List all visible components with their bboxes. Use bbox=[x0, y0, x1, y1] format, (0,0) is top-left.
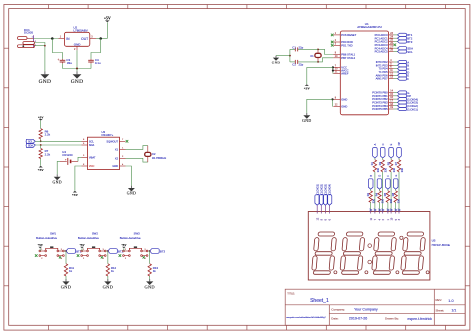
decimal point digit 4 bbox=[426, 271, 429, 274]
svg-text:22p: 22p bbox=[299, 62, 304, 66]
capacitor C2 22p bbox=[290, 60, 318, 66]
wire R12 to GND bbox=[107, 276, 109, 279]
wire +5V to SW1 bbox=[39, 248, 41, 251]
svg-text:330: 330 bbox=[397, 198, 401, 203]
U1 pin 16 PCINT2 PB2 bbox=[372, 97, 418, 101]
wire battery negative to GND bbox=[57, 161, 60, 174]
net tag segment A bbox=[373, 143, 378, 158]
svg-text:GND: GND bbox=[61, 285, 71, 290]
ground under R11 bbox=[65, 279, 67, 281]
U1 pin 5 INT1 PD3 bbox=[376, 63, 409, 67]
ground under R12 bbox=[107, 279, 109, 281]
svg-text:+5V: +5V bbox=[38, 115, 44, 119]
junction R6-SCL bbox=[40, 140, 42, 142]
U1 pin 18 PCINT4 PB4 bbox=[372, 104, 418, 108]
+3V flag under MCU bbox=[305, 84, 309, 86]
wire jack pin1 to regulator IN bbox=[34, 38, 59, 40]
net tag BT1 bbox=[66, 249, 76, 254]
svg-text:GND: GND bbox=[341, 105, 347, 109]
svg-text:GND: GND bbox=[71, 79, 84, 85]
U1 pin 24 PC1 ADC1 bbox=[375, 36, 413, 40]
svg-text:X1: X1 bbox=[310, 54, 314, 58]
net port SCL bbox=[26, 139, 35, 143]
resistor R3 330 segment C bbox=[378, 158, 388, 172]
wire segment C to display bbox=[382, 172, 384, 210]
net tag segment F bbox=[386, 175, 391, 190]
resistor R7 2.2k bbox=[40, 145, 42, 148]
button SW1 Button-Autodrive bbox=[36, 232, 64, 261]
wire X2 to crystal bbox=[126, 158, 148, 162]
decimal point digit 3 bbox=[396, 271, 399, 274]
wire to resistor R11 bbox=[65, 251, 67, 264]
wire left branch to C3 bbox=[52, 39, 62, 59]
wire +5V to R6 bbox=[40, 121, 42, 129]
wire R13 to GND bbox=[149, 276, 151, 279]
ground under R13 bbox=[149, 279, 151, 281]
wire SW1 to net tag and resistor bbox=[64, 250, 66, 252]
svg-text:+: + bbox=[57, 58, 59, 62]
U1 pin 9 PB6 XTAL1 bbox=[333, 53, 355, 57]
svg-text:Sheet_1: Sheet_1 bbox=[310, 298, 329, 304]
ground under U3 bbox=[130, 186, 132, 188]
display left digit pins with tags bbox=[315, 184, 320, 221]
+3V flag under R7 bbox=[39, 166, 43, 168]
svg-text:+5V: +5V bbox=[38, 243, 44, 247]
+5V flag SW2 bbox=[80, 247, 84, 249]
net port SDA bbox=[26, 144, 35, 148]
ground under DC jack bbox=[44, 71, 46, 74]
wire VCC to +3V flag bbox=[75, 166, 82, 191]
svg-text:GND: GND bbox=[39, 79, 52, 85]
resistor R7 330 segment DP bbox=[394, 158, 404, 172]
no-connect X on SQWOUT bbox=[126, 140, 129, 143]
svg-text:32.768KHz: 32.768KHz bbox=[152, 156, 167, 160]
svg-text:VCC: VCC bbox=[89, 164, 95, 168]
svg-text:R5: R5 bbox=[386, 161, 390, 165]
svg-text:330: 330 bbox=[400, 167, 404, 172]
svg-text:CR1220: CR1220 bbox=[62, 153, 73, 157]
wire XTAL1 to crystal rail bbox=[318, 49, 333, 54]
svg-text:R4: R4 bbox=[375, 192, 379, 196]
svg-text:G: G bbox=[395, 175, 398, 177]
resistor R6 330 segment F bbox=[383, 189, 393, 203]
no-connect X SW2 pin4 bbox=[101, 256, 103, 258]
wire right branch to C4 bbox=[91, 39, 101, 59]
resistor R1 330 segment A bbox=[370, 158, 380, 172]
U1 pin 25 PC2 ADC2 bbox=[375, 40, 413, 44]
U1 pin 8 GND bbox=[333, 97, 347, 101]
U1 pin 15 PCINT1 PB1 bbox=[372, 94, 411, 98]
svg-text:espen.t.fredrick: espen.t.fredrick bbox=[407, 317, 432, 321]
crystal X1 bbox=[310, 49, 321, 62]
crystal X2 32.768KHz bbox=[145, 146, 167, 163]
junction jack pin3 bbox=[44, 45, 46, 47]
resistor R5 330 segment E bbox=[386, 158, 396, 172]
ground crystal caps bbox=[275, 56, 277, 58]
decimal point digit 2 bbox=[365, 271, 368, 274]
svg-text:GND: GND bbox=[112, 164, 118, 168]
svg-text:GND: GND bbox=[127, 192, 136, 196]
seven segment digit 2 bbox=[340, 232, 366, 274]
U1 pin 2 PD0 RXD bbox=[331, 40, 353, 44]
display right segment pins bbox=[370, 209, 373, 221]
wire +5V to SW2 bbox=[81, 248, 83, 251]
svg-text:F: F bbox=[407, 77, 409, 81]
svg-text:R7: R7 bbox=[394, 161, 398, 165]
wire MCU GND pins to ground bbox=[307, 98, 334, 113]
no-connect X SW2 pin2 bbox=[77, 254, 80, 257]
svg-text:PC6 RESET: PC6 RESET bbox=[341, 33, 356, 37]
ground under MCU bbox=[306, 113, 308, 115]
svg-text:Drawn By:: Drawn By: bbox=[385, 317, 399, 321]
svg-text:(1:DIG4): (1:DIG4) bbox=[328, 184, 332, 195]
wire regulator OUT to +5V bbox=[96, 38, 107, 40]
svg-text:X1: X1 bbox=[115, 148, 119, 152]
U1 pin 21 AREF bbox=[333, 72, 349, 76]
svg-text:Company:: Company: bbox=[331, 308, 345, 312]
svg-text:+3V: +3V bbox=[304, 86, 311, 90]
U1 pin 10 PB7 XTAL2 bbox=[333, 56, 355, 60]
wire SDA to U3 bbox=[35, 144, 81, 146]
svg-text:T0 PD4: T0 PD4 bbox=[378, 67, 388, 71]
svg-text:+5V: +5V bbox=[79, 243, 85, 247]
U1 pin 28 PC5 ADC5 bbox=[375, 50, 413, 54]
svg-text:DP: DP bbox=[398, 142, 401, 146]
wire segment F to display pin bbox=[387, 202, 389, 209]
title block bbox=[285, 289, 465, 325]
U1 pin 20 AVCC bbox=[333, 69, 348, 73]
no-connect X SW1 pin2 bbox=[35, 254, 38, 257]
wire to resistor R12 bbox=[107, 251, 109, 264]
voltage regulator U2 L7805ABV bbox=[59, 25, 97, 51]
wire segment E to display bbox=[390, 172, 392, 210]
U1 pin 26 PC3 ADC3 bbox=[375, 43, 397, 47]
svg-text:GND: GND bbox=[103, 285, 113, 290]
svg-text:330: 330 bbox=[372, 198, 376, 203]
title block texts bbox=[286, 291, 456, 321]
U1 pin 22 GND bbox=[333, 105, 347, 109]
wire X1 to crystal bbox=[126, 146, 148, 150]
svg-text:BT3: BT3 bbox=[407, 40, 413, 44]
U1 pin 11 T1 PD5 bbox=[378, 70, 409, 74]
svg-text:R6: R6 bbox=[383, 192, 387, 196]
svg-text:AREF: AREF bbox=[341, 72, 349, 76]
connector DC1 DC005 barrel jack bbox=[18, 28, 38, 48]
svg-text:REV:: REV: bbox=[436, 298, 443, 302]
battery U4 CR1220 bbox=[60, 150, 78, 165]
svg-text:R8: R8 bbox=[391, 192, 395, 196]
svg-text:33u: 33u bbox=[67, 61, 72, 65]
RTC U3 DS1307+ bbox=[82, 130, 126, 170]
junction crystal bottom bbox=[317, 61, 319, 63]
svg-text:GND: GND bbox=[302, 119, 311, 123]
svg-text:SCL: SCL bbox=[28, 140, 33, 143]
+3V flag under U3 VCC bbox=[73, 191, 77, 193]
wire SW2 to net tag and resistor bbox=[106, 250, 108, 252]
+5V flag SW1 bbox=[38, 247, 42, 249]
U1 pin 4 INT0 PD2 bbox=[376, 60, 409, 64]
resistor R2 330 segment B bbox=[366, 189, 376, 203]
svg-text:PB7 XTAL2: PB7 XTAL2 bbox=[341, 56, 355, 60]
svg-text:BT3: BT3 bbox=[160, 249, 166, 253]
wire R7 to +3V bbox=[40, 159, 42, 166]
frame row ticks bbox=[4, 48, 470, 286]
wire R6 to SCL line bbox=[40, 139, 42, 142]
svg-text:HDSP-B03E: HDSP-B03E bbox=[432, 243, 451, 247]
wire C4 to ground rail bbox=[90, 64, 92, 69]
U1 pin 14 PCINT0 PB0 bbox=[372, 91, 409, 95]
U1 pin 1 PC6 RESET bbox=[331, 33, 357, 37]
svg-text:Button-Autodrive: Button-Autodrive bbox=[120, 236, 141, 240]
svg-text:Button-Autodrive: Button-Autodrive bbox=[78, 236, 99, 240]
svg-text:+5V: +5V bbox=[104, 17, 111, 21]
wire R11 to GND bbox=[65, 276, 67, 279]
svg-text:VBAT: VBAT bbox=[89, 155, 96, 159]
svg-text:1k: 1k bbox=[111, 269, 115, 273]
U1 pin 6 T0 PD4 bbox=[378, 67, 409, 71]
colon upper dot bbox=[368, 244, 372, 248]
svg-text:PD1 TXD: PD1 TXD bbox=[341, 43, 352, 47]
svg-text:PC3 ADC3: PC3 ADC3 bbox=[375, 43, 388, 47]
net tag segment E bbox=[389, 143, 394, 158]
resistor R4 330 segment D bbox=[375, 189, 385, 203]
svg-text:330: 330 bbox=[384, 167, 388, 172]
wire U3 GND to ground bbox=[126, 166, 132, 186]
svg-text:330: 330 bbox=[376, 167, 380, 172]
svg-text:GND: GND bbox=[144, 285, 154, 290]
+5V flag SW3 bbox=[122, 247, 126, 249]
svg-text:OUT: OUT bbox=[81, 37, 88, 41]
junction crystal top bbox=[317, 49, 319, 51]
svg-text:easyeda.com/editor#id=a1b2c3d4: easyeda.com/editor#id=a1b2c3d4e5f6g7 bbox=[286, 316, 326, 319]
U1 pin 13 AIN1 PD7 bbox=[376, 77, 410, 81]
U1 pin 3 PD1 TXD bbox=[331, 43, 353, 47]
resistor R6 2.2k bbox=[39, 129, 42, 139]
svg-text:+3V: +3V bbox=[72, 193, 79, 197]
+5V flag above R6 bbox=[39, 119, 43, 121]
svg-text:22p: 22p bbox=[299, 46, 304, 50]
svg-text:DS1307+: DS1307+ bbox=[102, 133, 114, 137]
U1 pin 27 PC4 ADC4 bbox=[375, 46, 413, 50]
seven segment digit 1 bbox=[311, 232, 337, 274]
svg-text:C2: C2 bbox=[292, 62, 296, 66]
junction R7-SDA bbox=[40, 144, 42, 146]
svg-text:R1: R1 bbox=[370, 161, 374, 165]
svg-text:330: 330 bbox=[392, 167, 396, 172]
svg-text:SQWOUT: SQWOUT bbox=[106, 139, 118, 143]
U1 pin 23 PC0 ADC0 bbox=[375, 33, 413, 37]
wire C3 to ground rail bbox=[62, 64, 64, 69]
wire segment B to display pin bbox=[370, 202, 372, 209]
wire segment DP to display bbox=[398, 172, 400, 210]
svg-text:2.2k: 2.2k bbox=[45, 153, 51, 157]
wire to resistor R13 bbox=[149, 251, 151, 264]
wire +5V to SW3 bbox=[123, 248, 125, 251]
wire jack pin3 stub bbox=[35, 45, 45, 47]
net tag segment C bbox=[380, 143, 385, 158]
net tag segment D bbox=[377, 175, 382, 190]
net tag BT3 bbox=[150, 249, 160, 254]
svg-text:PC5 ADC5: PC5 ADC5 bbox=[375, 50, 388, 54]
svg-text:C1: C1 bbox=[292, 46, 296, 50]
junction at 52.3,38.5 bbox=[51, 37, 54, 40]
svg-text:+5V: +5V bbox=[121, 243, 127, 247]
svg-text:DC005: DC005 bbox=[24, 31, 33, 35]
U1 pin 17 PCINT3 PB3 bbox=[372, 101, 418, 105]
seven segment digit 4 bbox=[400, 232, 426, 274]
svg-text:PCINT5 PB5: PCINT5 PB5 bbox=[372, 107, 388, 111]
no-connect X SW3 pin2 bbox=[119, 254, 122, 257]
svg-text:GND: GND bbox=[74, 42, 82, 46]
MCU U1 ATMEGA328P-PU bbox=[340, 22, 388, 115]
svg-text:Your Company: Your Company bbox=[354, 308, 378, 312]
svg-text:(1:DIG1): (1:DIG1) bbox=[407, 107, 418, 111]
wire SCL to U3 bbox=[35, 140, 81, 142]
svg-text:SCL: SCL bbox=[407, 50, 413, 54]
colon lower dot bbox=[368, 260, 372, 264]
svg-text:X2: X2 bbox=[115, 156, 119, 160]
wire segment G to display pin bbox=[395, 202, 397, 209]
svg-text:Sheet:: Sheet: bbox=[436, 308, 445, 312]
+5V flag power supply bbox=[105, 20, 110, 22]
no-connect X SW3 pin4 bbox=[143, 256, 145, 258]
ground rail under regulator bbox=[63, 68, 92, 70]
resistor R11 1k bbox=[64, 264, 67, 276]
net tag segment B bbox=[368, 175, 373, 190]
svg-text:GND: GND bbox=[341, 97, 347, 101]
wire SW3 to net tag and resistor bbox=[148, 250, 150, 252]
svg-text:GND: GND bbox=[53, 180, 62, 184]
svg-text:SCL: SCL bbox=[89, 139, 95, 143]
decimal point digit 1 bbox=[334, 271, 337, 274]
net tag segment G bbox=[393, 175, 398, 190]
svg-text:1.0: 1.0 bbox=[448, 299, 453, 303]
svg-text:D: D bbox=[379, 175, 382, 177]
svg-text:330: 330 bbox=[380, 198, 384, 203]
ground under regulator bbox=[76, 71, 78, 74]
button SW2 Button-Autodrive bbox=[78, 232, 106, 261]
svg-text:0.1u: 0.1u bbox=[95, 61, 101, 65]
wire caps to ground bbox=[276, 49, 291, 62]
ground under battery bbox=[56, 174, 58, 176]
svg-text:2.2k: 2.2k bbox=[45, 133, 51, 137]
no-connect X SW1 pin4 bbox=[59, 256, 61, 258]
capacitor C3 33u bbox=[57, 58, 72, 65]
svg-text:SDA: SDA bbox=[89, 143, 95, 147]
svg-text:AIN1 PD7: AIN1 PD7 bbox=[376, 77, 388, 81]
display U5 HDSP-B03E outline bbox=[308, 212, 450, 281]
wire VCC AVCC AREF bus to +3V bbox=[307, 66, 334, 84]
wire XTAL2 to crystal rail bbox=[318, 58, 333, 62]
resistor R13 1k bbox=[148, 264, 151, 276]
svg-text:C: C bbox=[382, 143, 385, 145]
net tag BT2 bbox=[108, 249, 118, 254]
svg-text:2019-07-26: 2019-07-26 bbox=[349, 317, 367, 321]
resistor R8 330 segment G bbox=[391, 189, 401, 203]
wire segment D to display pin bbox=[379, 202, 381, 209]
svg-text:+3V: +3V bbox=[38, 168, 45, 172]
svg-text:1/1: 1/1 bbox=[452, 308, 457, 312]
apostrophe indicator bbox=[400, 236, 403, 239]
net tag segment DP bbox=[397, 142, 402, 158]
svg-text:330: 330 bbox=[389, 198, 393, 203]
U1 pin 12 AIN0 PD6 bbox=[376, 73, 410, 77]
svg-text:SDA: SDA bbox=[28, 145, 33, 148]
capacitor C4 0.1u bbox=[88, 58, 101, 65]
seven segment digit 3 bbox=[371, 232, 397, 274]
wire regulator GND pin to rail bbox=[76, 50, 78, 68]
svg-text:GND: GND bbox=[272, 61, 281, 65]
button SW3 Button-Autodrive bbox=[120, 232, 148, 261]
svg-text:ATMEGA328P-PU: ATMEGA328P-PU bbox=[357, 25, 382, 29]
svg-text:Date:: Date: bbox=[331, 317, 338, 321]
svg-text:Button-Autodrive: Button-Autodrive bbox=[36, 236, 57, 240]
U1 pin 19 PCINT5 PB5 bbox=[372, 107, 418, 111]
wire jack pin2 pin3 to GND bbox=[35, 43, 45, 72]
svg-text:R2: R2 bbox=[366, 192, 370, 196]
svg-text:R3: R3 bbox=[378, 161, 382, 165]
wire battery positive to VBAT bbox=[78, 157, 82, 161]
capacitor C1 22p bbox=[290, 46, 318, 52]
resistor R12 1k bbox=[106, 264, 109, 276]
wire segment A to display bbox=[374, 172, 376, 210]
svg-text:TITLE:: TITLE: bbox=[287, 291, 295, 295]
U1 pin 7 VCC bbox=[333, 66, 347, 70]
